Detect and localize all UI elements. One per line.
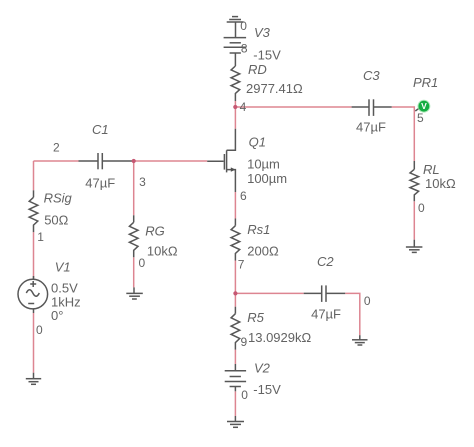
svg-text:47µF: 47µF: [85, 176, 115, 191]
svg-text:200Ω: 200Ω: [247, 244, 279, 259]
svg-text:-15V: -15V: [253, 48, 281, 63]
svg-text:R5: R5: [247, 310, 264, 325]
svg-text:47µF: 47µF: [311, 307, 341, 322]
svg-text:47µF: 47µF: [356, 120, 386, 135]
svg-text:0: 0: [241, 388, 248, 402]
svg-text:C3: C3: [363, 68, 380, 83]
svg-text:1: 1: [37, 230, 44, 244]
svg-text:13.0929kΩ: 13.0929kΩ: [248, 330, 311, 345]
svg-text:8: 8: [241, 42, 248, 56]
svg-text:-15V: -15V: [253, 382, 281, 397]
svg-text:2977.41Ω: 2977.41Ω: [246, 81, 303, 96]
svg-text:0.5V: 0.5V: [51, 281, 78, 296]
svg-text:0: 0: [418, 201, 425, 215]
svg-text:4: 4: [240, 100, 247, 114]
svg-text:RSig: RSig: [44, 190, 73, 205]
svg-text:C1: C1: [92, 122, 109, 137]
svg-text:C2: C2: [317, 254, 334, 269]
svg-text:3: 3: [139, 175, 146, 189]
svg-text:V: V: [421, 101, 427, 111]
svg-text:10kΩ: 10kΩ: [425, 176, 456, 191]
svg-text:Q1: Q1: [249, 135, 266, 150]
svg-text:10kΩ: 10kΩ: [147, 244, 178, 259]
svg-text:0°: 0°: [51, 308, 63, 323]
svg-text:2: 2: [53, 141, 60, 155]
svg-text:RD: RD: [248, 62, 267, 77]
svg-text:V1: V1: [55, 259, 71, 274]
svg-text:5: 5: [417, 111, 424, 125]
svg-text:100µm: 100µm: [247, 171, 287, 186]
svg-text:7: 7: [238, 258, 245, 272]
svg-text:0: 0: [364, 294, 371, 308]
svg-text:50Ω: 50Ω: [44, 213, 68, 228]
svg-text:V2: V2: [254, 361, 271, 376]
svg-text:10µm: 10µm: [247, 157, 280, 172]
svg-text:V3: V3: [254, 25, 271, 40]
svg-text:PR1: PR1: [413, 75, 438, 90]
svg-text:0: 0: [36, 323, 43, 337]
svg-text:9: 9: [241, 335, 248, 349]
svg-text:0: 0: [240, 19, 247, 33]
svg-text:RL: RL: [423, 162, 440, 177]
svg-text:Rs1: Rs1: [247, 222, 270, 237]
svg-text:6: 6: [240, 189, 247, 203]
svg-text:0: 0: [139, 256, 146, 270]
svg-text:RG: RG: [145, 224, 165, 239]
